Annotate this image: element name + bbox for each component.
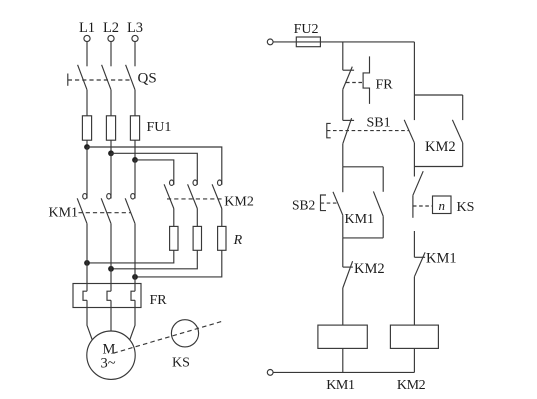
svg-text:KM1: KM1 (326, 378, 355, 393)
wire latch to KM2 NC (342, 238, 344, 267)
svg-text:3~: 3~ (100, 356, 115, 372)
terminal L1 (79, 20, 95, 42)
wire KM2 NC to coil KM1 (342, 288, 344, 325)
svg-text:KM2: KM2 (397, 378, 426, 393)
node dot leg1 (84, 260, 90, 266)
pushbutton SB1 NO contact (404, 120, 414, 167)
wire FR to motor U (87, 300, 92, 340)
svg-text:L3: L3 (127, 20, 143, 36)
svg-text:KM2: KM2 (425, 139, 456, 155)
svg-text:FU1: FU1 (147, 120, 172, 135)
wire FR to SB1 (342, 89, 344, 120)
pushbutton SB1 NC contact (327, 116, 409, 144)
switch QS (68, 65, 157, 90)
contactor KM1 NC interlock (414, 251, 456, 277)
wire KM2 to resistors (174, 209, 222, 227)
wire coil KM1 to bus (342, 348, 344, 372)
svg-text:L2: L2 (103, 20, 119, 36)
wire resistor2 to L2 leg (111, 250, 197, 268)
svg-text:KM2: KM2 (354, 261, 385, 277)
wire FR to motor W (130, 300, 135, 340)
latch block KM2 bottom bar (414, 166, 462, 168)
wire coil KM2 to bus (413, 348, 415, 372)
wire L3 to QS (134, 42, 136, 67)
control terminal bottom (267, 370, 273, 376)
KS n box (433, 196, 475, 215)
node dot L2 bus (108, 150, 114, 156)
contactor KM2 NC interlock (343, 261, 385, 288)
wire L1 to QS (86, 42, 88, 67)
svg-text:KS: KS (457, 200, 475, 215)
node dot L3 bus (132, 157, 138, 163)
wire QS to FU1 pole3 (134, 90, 136, 116)
thermal relay FR box (73, 284, 141, 308)
svg-text:KS: KS (172, 356, 190, 371)
wire resistor3 to L3 leg (135, 250, 222, 277)
svg-text:KM1: KM1 (426, 251, 457, 267)
svg-text:SB1: SB1 (367, 116, 391, 131)
contactor KM2 main contacts (164, 180, 254, 210)
node dot leg2 (108, 266, 114, 272)
svg-text:KM1: KM1 (49, 206, 79, 221)
wire L1 to KM2 pole3 (87, 147, 222, 185)
node dot leg3 (132, 274, 138, 280)
pushbutton SB2 NO contact (292, 167, 343, 238)
shaft dashed link (113, 322, 221, 354)
wire KM1 to FR heaters (87, 224, 135, 292)
latch block KM1 top bar (343, 166, 383, 168)
wire FU1 to KM1 contacts (87, 147, 135, 199)
fuse FU2 (294, 22, 321, 47)
svg-text:L1: L1 (79, 20, 95, 36)
wire terminal to FU2 (273, 41, 296, 43)
wire bottom bus (273, 371, 414, 373)
FR heater element 1 (83, 291, 87, 300)
wire QS to FU1 pole2 (110, 90, 112, 116)
terminal L2 (103, 20, 119, 42)
FR heater element 3 (131, 291, 135, 300)
contactor KM1 aux latch contact (345, 167, 384, 238)
wire KM1 NC to coil KM2 (413, 277, 415, 325)
svg-text:KM2: KM2 (224, 195, 254, 210)
wire top bus (320, 41, 414, 43)
resistor R bank (170, 226, 243, 250)
motor M (87, 331, 135, 379)
coil KM2 (390, 325, 438, 348)
contactor KM2 aux latch contact (425, 95, 463, 167)
latch block KM1 bottom bar (343, 237, 383, 239)
wire L2 to QS (110, 42, 112, 67)
speed relay KS sensor (171, 320, 198, 371)
wire right branch drop (413, 42, 415, 120)
svg-text:R: R (233, 233, 243, 248)
wire QS to FU1 pole1 (86, 90, 88, 116)
svg-text:FR: FR (150, 293, 168, 308)
wire left branch drop (342, 42, 344, 70)
coil KM1 (318, 325, 367, 348)
wire SB1 to latch block (342, 144, 344, 167)
svg-text:QS: QS (138, 71, 157, 87)
svg-text:KM1: KM1 (345, 212, 375, 227)
wire FR to motor V (110, 300, 112, 331)
svg-text:SB2: SB2 (292, 198, 315, 213)
svg-text:FR: FR (376, 77, 394, 92)
contactor KM1 main contacts (49, 194, 136, 224)
FR trip element symbol (346, 56, 393, 104)
latch block KM2 top bar (414, 94, 462, 96)
FR heater element 2 (107, 291, 111, 300)
svg-text:FU2: FU2 (294, 22, 319, 37)
speed relay KS NO contact (413, 167, 433, 258)
control terminal top (267, 39, 273, 45)
terminal L3 (127, 20, 143, 42)
wire L2 to KM2 pole2 (111, 153, 197, 185)
wire L3 to KM2 pole1 (135, 160, 174, 185)
fuse FU1 (82, 116, 171, 160)
wire resistor1 to L1 leg (87, 250, 174, 263)
svg-text:n: n (438, 198, 445, 213)
node dot L1 bus (84, 144, 90, 150)
FR NC contact (343, 67, 354, 90)
